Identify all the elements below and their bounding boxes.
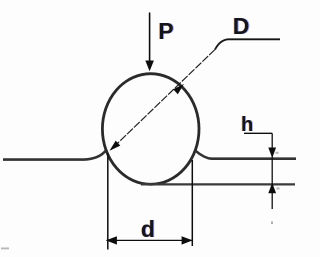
h arrow up (to crater bottom) [268,183,276,194]
d arrow right [182,236,193,244]
d dimension line [107,239,193,241]
indentation bottom line [141,183,295,185]
scan speckle bottom-left [1,248,9,250]
label h [241,114,253,137]
right surface line with raised lip [196,151,296,159]
label d [141,216,155,243]
scan speckle right edge lower [277,188,280,190]
label P [158,18,173,45]
D leader line horizontal [215,39,280,49]
d extension line right [191,160,193,246]
h dimension vertical line [271,133,273,209]
force arrow P head [145,61,154,72]
force arrow P shaft [149,13,151,63]
scan speckle right edge upper [276,152,279,154]
d arrow left [106,236,117,244]
D arrowhead upper (at ball edge) [173,84,184,94]
scan speckle below h line [271,222,273,225]
h arrow down (to surface) [268,148,276,159]
label D [233,13,250,40]
d extension line left [107,153,109,250]
D diameter line (diagonal, dashed) [111,50,215,150]
h leader line [244,132,272,134]
indenter ball [102,74,199,185]
left surface line with raised lip [3,151,106,160]
D arrowhead lower (at crater rim) [110,141,121,151]
